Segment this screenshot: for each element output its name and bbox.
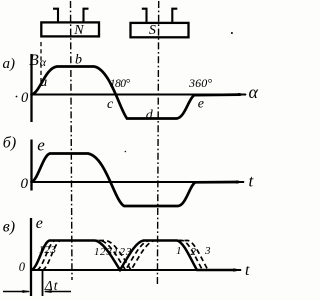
tick marking delayed start	[42, 270, 44, 296]
delta t right arrow	[44, 290, 72, 293]
pole S core right side with top hook	[172, 9, 177, 23]
svg-text:N: N	[73, 23, 84, 38]
pole S shoe outline	[131, 23, 189, 37]
svg-text:3: 3	[204, 245, 211, 257]
label alpha	[249, 82, 259, 102]
svg-text:d: d	[146, 108, 154, 123]
plot v x-axis (t axis)	[31, 268, 243, 271]
label 360 degrees	[188, 76, 212, 90]
svg-text:1: 1	[176, 245, 182, 257]
curve number labels 1 2 3 at first rise	[39, 244, 57, 256]
svg-text:e: e	[198, 97, 204, 112]
svg-text:e: e	[37, 135, 45, 154]
label 0 of plot a	[21, 90, 29, 106]
curve number labels 1 2 3 at second rise	[113, 246, 132, 258]
curve number labels 1 2 3 at last fall	[176, 245, 211, 258]
svg-text:b: b	[75, 53, 82, 68]
svg-text:3: 3	[50, 244, 57, 256]
pole S core left side with top hook	[142, 9, 147, 23]
svg-text:в): в)	[3, 219, 15, 236]
svg-text:а): а)	[3, 56, 16, 72]
plot a x-axis (alpha axis)	[32, 93, 248, 96]
ink speck near plot a origin	[16, 96, 18, 98]
label e axis of plot b	[37, 135, 45, 154]
label d above negative plateau	[146, 108, 154, 123]
pole N core left side with top hook	[53, 9, 58, 23]
svg-text:t: t	[245, 262, 250, 279]
svg-text:1: 1	[113, 246, 119, 258]
svg-text:e: e	[36, 215, 43, 232]
centerline of S pole (dash-dot)	[157, 1, 158, 285]
label e axis of plot v	[36, 215, 43, 232]
plot a y-axis	[30, 54, 32, 122]
svg-text:180°: 180°	[110, 78, 131, 90]
svg-text:360°: 360°	[188, 76, 212, 90]
label 180 degrees	[110, 78, 131, 90]
svg-text:a: a	[40, 75, 47, 90]
label a on rising edge	[40, 75, 47, 90]
rectified emf curve 3 dashed (shifted more)	[43, 241, 209, 271]
plot b y-axis	[30, 140, 32, 191]
emf curve e(t) trapezoid	[32, 154, 239, 207]
svg-text:α: α	[249, 82, 259, 102]
svg-text:0: 0	[21, 176, 29, 192]
label 0 of plot v	[19, 260, 26, 274]
label b) plot marker	[3, 135, 16, 152]
label t of plot v	[245, 262, 250, 279]
svg-text:0: 0	[19, 260, 26, 274]
label N	[73, 23, 84, 38]
label c below axis	[107, 97, 114, 112]
pole N shoe outline	[41, 22, 99, 36]
pole N core right side with top hook	[84, 9, 89, 23]
plot b x-axis (t axis)	[32, 180, 246, 183]
plot v y-axis extended below origin	[30, 218, 32, 296]
svg-text:Δt: Δt	[44, 278, 59, 293]
svg-text:2: 2	[100, 246, 106, 258]
svg-text:1: 1	[39, 244, 45, 256]
rectified emf curve 1 solid	[32, 241, 237, 271]
svg-text:t: t	[249, 172, 255, 191]
ink speck top right	[231, 32, 233, 34]
svg-text:1: 1	[94, 246, 100, 258]
dashed drop line from N pole edge to curve	[40, 42, 42, 86]
svg-text:0: 0	[21, 90, 29, 106]
svg-text:3: 3	[106, 246, 113, 258]
centerline of N pole (dash-dot)	[71, 1, 73, 280]
label 0 of plot b	[21, 176, 29, 192]
label e at curve return	[198, 97, 204, 112]
axis label B alpha	[29, 52, 47, 69]
rectified emf curve 2 dashed (shifted)	[37, 241, 203, 271]
label t of plot b	[249, 172, 255, 191]
label v) plot marker	[3, 219, 15, 236]
flux density curve B(alpha) trapezoid	[32, 67, 241, 119]
svg-text:S: S	[149, 23, 156, 38]
svg-text:c: c	[107, 97, 114, 112]
svg-text:3: 3	[125, 246, 132, 258]
ink speck on plot b right of plateau	[125, 151, 127, 153]
label a) plot marker	[3, 56, 16, 72]
delta t left arrow	[3, 290, 31, 293]
svg-text:2: 2	[120, 246, 126, 258]
curve number labels 1 2 3 at first fall	[94, 246, 113, 258]
svg-text:б): б)	[3, 135, 16, 152]
label b above plateau	[75, 53, 82, 68]
svg-text:2: 2	[191, 246, 197, 258]
label delta t	[44, 278, 59, 293]
label S	[149, 23, 156, 38]
